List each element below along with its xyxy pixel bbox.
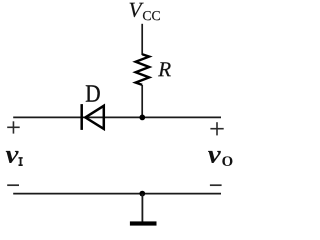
label VCC xyxy=(130,3,144,17)
wire: bottom rail xyxy=(13,193,221,195)
node: top junction xyxy=(139,115,145,121)
resistor R xyxy=(136,54,150,85)
label R xyxy=(158,62,171,76)
wire: top rail xyxy=(13,116,221,118)
wire: ground stub xyxy=(141,194,143,222)
plus sign left xyxy=(7,121,20,133)
ground xyxy=(130,221,157,225)
label vO xyxy=(208,151,221,163)
label vI xyxy=(6,151,19,163)
diode D triangle xyxy=(85,106,104,129)
minus sign left xyxy=(7,184,19,186)
diode D cathode bar xyxy=(80,104,83,130)
plus sign right xyxy=(210,122,223,135)
node: bottom junction xyxy=(139,191,145,197)
minus sign right xyxy=(210,184,222,186)
label D xyxy=(86,85,100,101)
wire: resistor bottom to top rail xyxy=(141,85,143,117)
wire: VCC stub down to resistor xyxy=(141,24,143,55)
